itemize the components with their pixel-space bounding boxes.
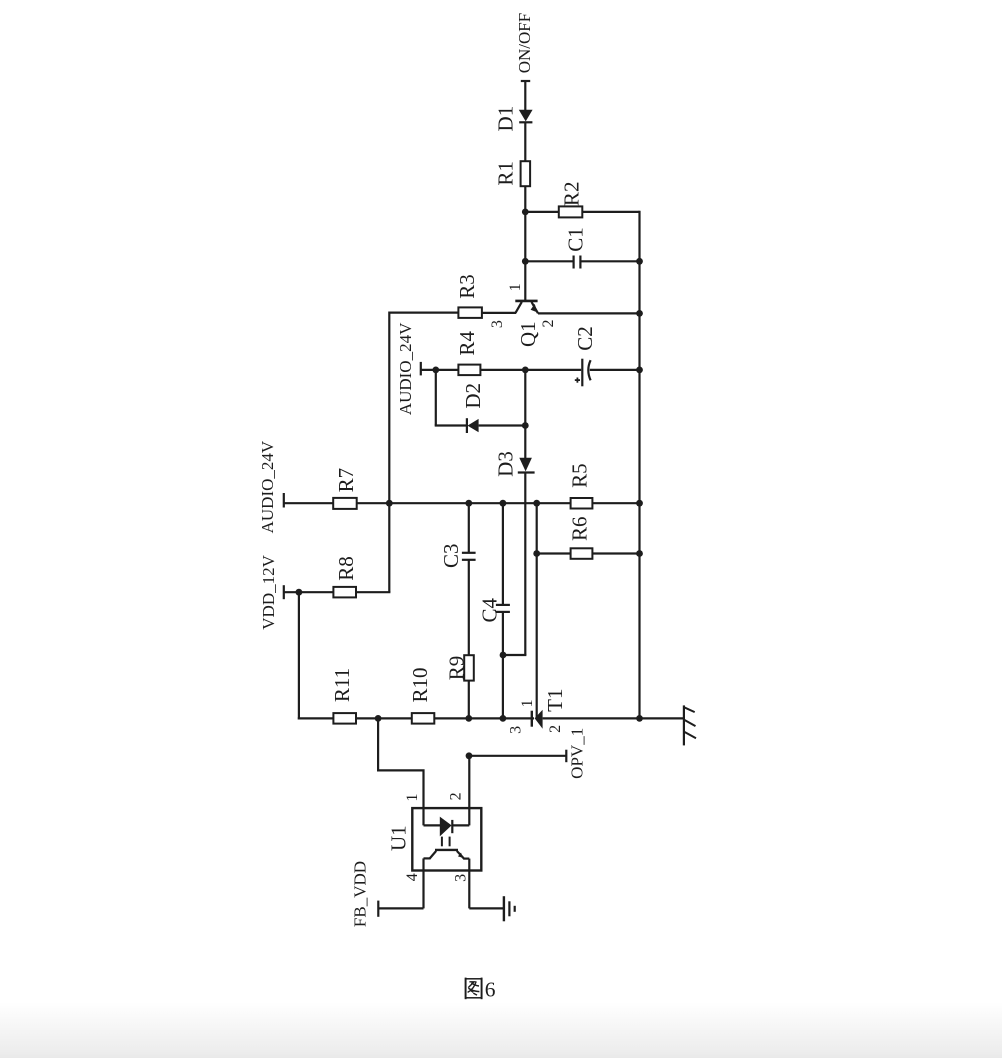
wire ON/OFF to D1 — [524, 81, 526, 110]
svg-text:R6: R6 — [567, 516, 591, 541]
node FB_VDD — [351, 861, 379, 927]
node T1 column top junction — [533, 500, 540, 507]
node C3 top junction — [465, 500, 472, 507]
wire R3 to Q1 base — [482, 312, 516, 314]
svg-text:U1: U1 — [387, 825, 411, 851]
node U1 branch junction — [375, 715, 382, 722]
svg-text:AUDIO_24V: AUDIO_24V — [396, 322, 415, 415]
svg-text:AUDIO_24V: AUDIO_24V — [258, 440, 277, 533]
wire U1 pin1 jog — [378, 718, 423, 825]
wire C1 to right rail — [580, 260, 639, 262]
node AUDIO_24V upper — [396, 322, 421, 415]
capacitor C1 — [564, 227, 588, 268]
node R5 rail junction — [636, 500, 643, 507]
wire Q1 emitter row to right rail — [538, 312, 640, 314]
wire column R4 to D2 row — [524, 370, 526, 426]
wire to R2 — [525, 211, 559, 213]
wire D3 down to jog — [524, 473, 526, 656]
node rail x389 junction — [386, 500, 393, 507]
svg-text:3: 3 — [489, 320, 506, 328]
resistor R5 — [567, 463, 592, 508]
wire AUDIO_24V to R4 — [421, 369, 459, 371]
wire D2 branch down — [435, 370, 437, 426]
wire D2 to column — [479, 424, 526, 426]
svg-text:R8: R8 — [334, 556, 358, 581]
wire D1 to R1 — [524, 122, 526, 161]
wire T1 to right rail — [543, 717, 640, 719]
resistor R11 — [330, 668, 356, 724]
svg-text:R2: R2 — [560, 182, 584, 207]
svg-text:1: 1 — [507, 283, 524, 291]
wire VDD to R8 — [284, 591, 334, 593]
node R6 rail junction — [636, 550, 643, 557]
node Q1 emitter rail junction — [636, 310, 643, 317]
wire U1 pin3 down — [468, 859, 470, 909]
wire AUDIO rail left — [284, 502, 333, 504]
transistor T1 — [508, 689, 568, 734]
wire VDD column down — [298, 592, 300, 719]
svg-text:R5: R5 — [567, 463, 591, 488]
svg-text:2: 2 — [547, 725, 564, 733]
svg-text:T1: T1 — [543, 689, 567, 712]
svg-text:3: 3 — [508, 726, 525, 734]
capacitor C4 — [477, 598, 510, 623]
node R2 junction — [522, 209, 529, 216]
wire C4 column upper — [502, 503, 504, 605]
node C4 column main row junction — [500, 715, 507, 722]
wire C4 to main row — [502, 612, 504, 719]
svg-text:D3: D3 — [494, 451, 518, 477]
wire OPV_1 row — [469, 755, 566, 757]
wire C2 to right rail — [590, 369, 640, 371]
svg-text:Q1: Q1 — [516, 321, 540, 347]
svg-text:1: 1 — [519, 699, 536, 707]
node jog junction — [500, 652, 507, 659]
wire R10 to T1 — [434, 717, 534, 719]
caption 图6 — [466, 977, 496, 1001]
resistor R8 — [333, 556, 358, 597]
wire C3 to R9 — [468, 560, 470, 655]
svg-text:R3: R3 — [455, 274, 479, 299]
wire R3 left segment — [389, 312, 458, 314]
node C2 rail junction — [636, 367, 643, 374]
svg-text:6: 6 — [485, 977, 496, 1001]
node D2 column junction — [522, 422, 529, 429]
resistor R3 — [455, 274, 482, 318]
resistor R7 — [333, 468, 358, 509]
capacitor C3 — [439, 543, 475, 568]
svg-text:R11: R11 — [330, 668, 354, 702]
wire AUDIO rail middle — [357, 502, 571, 504]
svg-text:D2: D2 — [461, 383, 485, 409]
transistor Q1 — [489, 283, 557, 347]
svg-text:VDD_12V: VDD_12V — [259, 554, 278, 629]
wire R6 left segment — [537, 552, 571, 554]
wire R9 to main row — [468, 681, 470, 719]
wire to C1 — [525, 260, 572, 262]
wire R4 to C2 — [480, 369, 581, 371]
svg-text:R10: R10 — [408, 667, 432, 702]
resistor R1 — [494, 161, 531, 186]
wire FB row — [378, 907, 423, 909]
wire R8 to x389 column — [356, 591, 390, 593]
ground bottom — [504, 896, 515, 921]
svg-text:R1: R1 — [494, 161, 518, 186]
wire to D2 anode — [435, 424, 467, 426]
wire U1 pin4 down — [422, 858, 424, 908]
node R4 column junction — [522, 367, 529, 374]
wire R2 to right rail corner — [582, 211, 639, 213]
capacitor C2 — [573, 326, 597, 386]
svg-text:ON/OFF: ON/OFF — [515, 13, 534, 73]
diode D3 — [494, 451, 535, 477]
wire right rail — [638, 211, 640, 719]
wire left column x389 — [388, 312, 390, 593]
node C1 rail junction — [636, 258, 643, 265]
node D2 branch junction — [432, 367, 439, 374]
node ON/OFF — [515, 13, 534, 81]
resistor R10 — [408, 667, 434, 723]
wire R5 to right rail — [592, 502, 639, 504]
svg-text:C1: C1 — [564, 227, 588, 252]
wire C3 column upper — [468, 503, 470, 553]
optocoupler U1 — [387, 792, 482, 882]
wire main row left — [298, 717, 334, 719]
svg-text:R4: R4 — [455, 331, 479, 356]
node OPV_1 — [566, 728, 586, 779]
svg-text:2: 2 — [448, 792, 465, 800]
svg-text:C4: C4 — [477, 598, 501, 623]
wire column to D3 — [524, 426, 526, 459]
resistor R4 — [455, 331, 480, 376]
node R9 column main row junction — [465, 715, 472, 722]
svg-text:2: 2 — [540, 320, 557, 328]
node VDD column junction — [296, 589, 303, 596]
wire R1 to Q1 collector — [524, 186, 526, 300]
resistor R2 — [559, 182, 584, 218]
wire jog to C4 column — [503, 654, 526, 656]
node right rail bottom junction — [636, 715, 643, 722]
svg-text:4: 4 — [404, 873, 421, 881]
wire T1 column — [536, 503, 538, 717]
wire R11 to R10 — [356, 717, 412, 719]
svg-text:C3: C3 — [439, 543, 463, 568]
svg-text:1: 1 — [404, 794, 421, 802]
diode D1 — [494, 106, 533, 132]
ground right — [684, 705, 696, 745]
resistor R9 — [444, 655, 473, 680]
node OPV row junction — [466, 752, 473, 759]
node VDD_12V — [259, 554, 284, 629]
node C1 junction — [522, 258, 529, 265]
wire to ground right — [640, 717, 684, 719]
diode D2 — [461, 383, 485, 433]
node AUDIO_24V left — [258, 440, 284, 533]
wire U1 pin2 column — [468, 756, 470, 826]
wire pin3 to ground — [469, 907, 504, 909]
svg-text:FB_VDD: FB_VDD — [351, 861, 370, 927]
resistor R6 — [567, 516, 592, 558]
wire R6 to right rail — [592, 552, 639, 554]
node R6 left junction — [533, 550, 540, 557]
svg-text:C2: C2 — [573, 326, 597, 351]
svg-text:D1: D1 — [494, 106, 518, 132]
svg-text:OPV_1: OPV_1 — [568, 728, 587, 779]
svg-text:R7: R7 — [334, 468, 358, 493]
svg-text:3: 3 — [453, 874, 470, 882]
node C4 top junction — [500, 500, 507, 507]
